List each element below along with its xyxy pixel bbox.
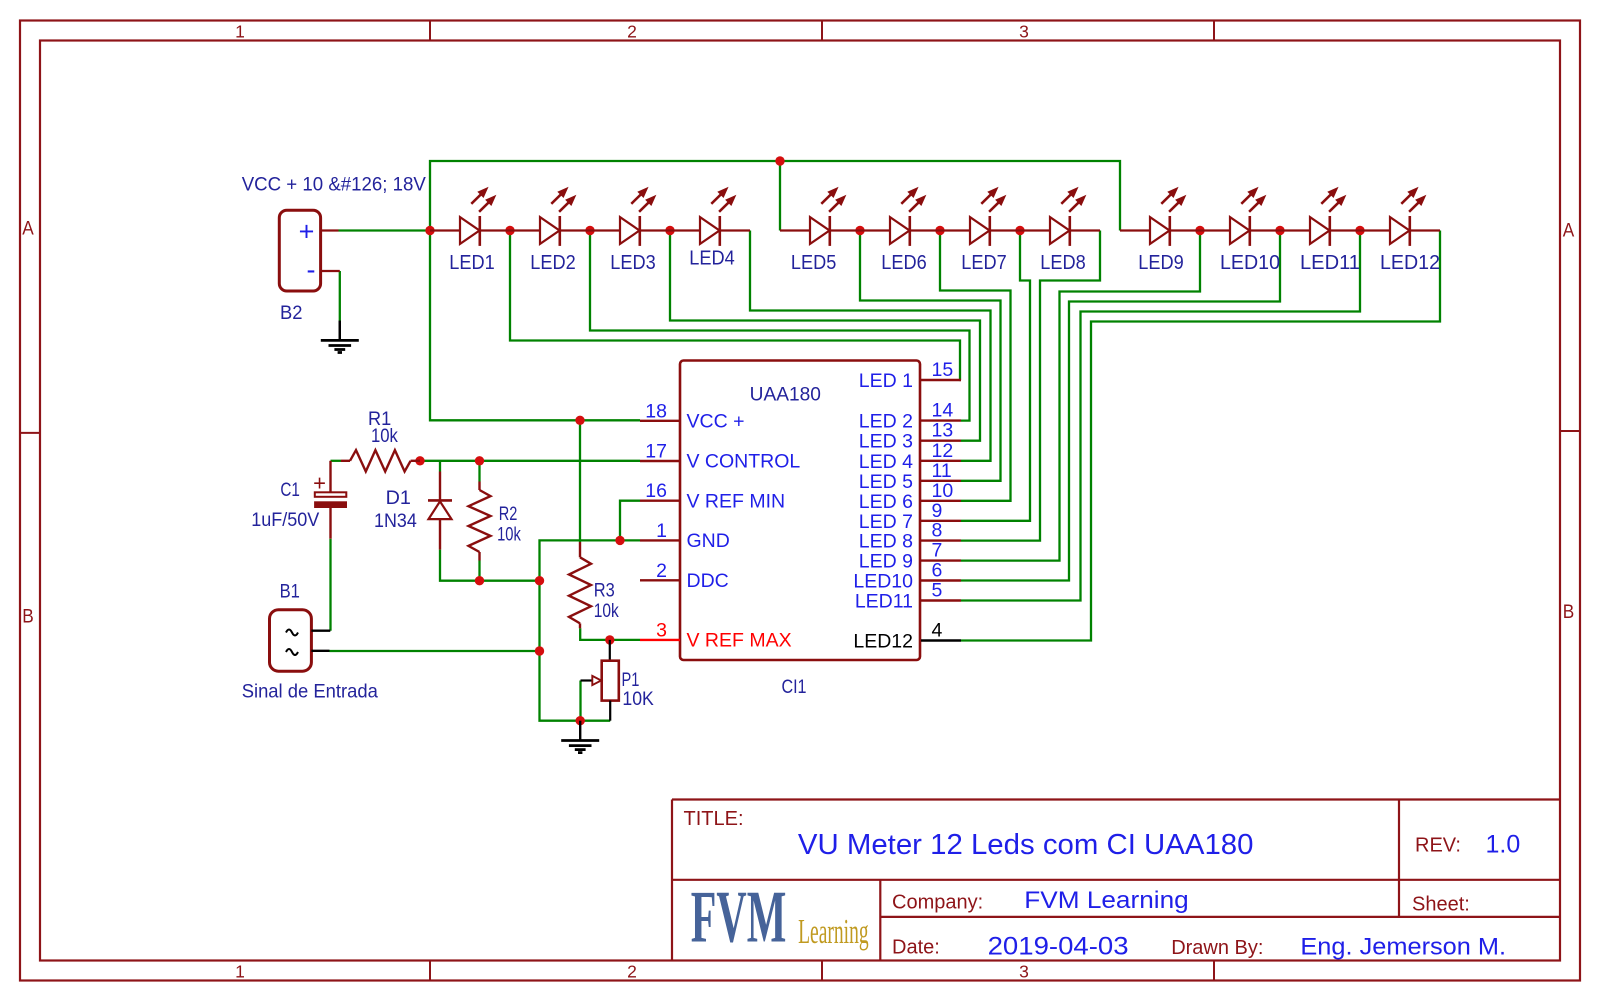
wire LED3 cathode to pin 13: [670, 231, 980, 441]
svg-text:2: 2: [656, 560, 667, 582]
label LED3: [610, 252, 655, 274]
svg-text:Sinal de Entrada: Sinal de Entrada: [242, 681, 378, 703]
LED12: [1360, 188, 1440, 246]
svg-text:3: 3: [656, 619, 667, 641]
svg-text:+: +: [299, 217, 315, 247]
wire VCC vertical + top rail + VCC+ pin18 feed: [430, 161, 1120, 420]
svg-text:16: 16: [645, 480, 667, 502]
svg-text:1.0: 1.0: [1486, 831, 1521, 859]
svg-text:LED8: LED8: [1040, 252, 1085, 274]
IC pin 16 V REF MIN: [640, 480, 785, 512]
LED7: [940, 188, 1020, 246]
wire V REF MIN pin16 to GND line: [620, 501, 640, 541]
wire top rail drop to LED5 anode: [779, 161, 781, 231]
label C1: [251, 479, 319, 531]
svg-text:15: 15: [932, 359, 954, 381]
wire R1 left stub: [331, 460, 342, 462]
svg-text:LED9: LED9: [1138, 252, 1183, 274]
title block REV cell: [1415, 831, 1520, 859]
LED3: [590, 188, 670, 246]
label P1: [622, 669, 654, 710]
svg-text:10k: 10k: [371, 425, 398, 447]
wire LED12 cathode to pin 4: [961, 231, 1440, 641]
IC pin 7 LED 9: [859, 540, 961, 573]
node LED5-LED6: [855, 226, 864, 235]
svg-text:10: 10: [932, 480, 954, 502]
signal source B1: [270, 610, 331, 672]
IC pin 2 DDC: [640, 560, 729, 592]
svg-text:14: 14: [932, 400, 954, 422]
svg-text:10k: 10k: [594, 600, 619, 622]
svg-text:LED7: LED7: [961, 252, 1006, 274]
svg-text:GND: GND: [687, 530, 730, 552]
svg-text:2: 2: [627, 22, 637, 42]
svg-text:D1: D1: [386, 487, 411, 509]
node VCC at LED1 anode: [425, 226, 434, 235]
node bottom ground: [576, 716, 585, 725]
svg-text:LED5: LED5: [791, 252, 836, 274]
IC pin 6 LED10: [853, 560, 961, 593]
label LED4: [689, 248, 734, 270]
node R2 top: [475, 456, 484, 465]
svg-text:Drawn By:: Drawn By:: [1171, 937, 1263, 959]
IC pin 17 V CONTROL: [640, 441, 800, 473]
node P1 top V REF MAX: [605, 635, 614, 644]
label B1: [280, 581, 300, 603]
node VCC to R3: [575, 416, 584, 425]
svg-text:1uF/50V: 1uF/50V: [251, 509, 319, 531]
svg-text:TITLE:: TITLE:: [684, 808, 744, 830]
LED10: [1200, 188, 1280, 246]
svg-text:LED10: LED10: [853, 571, 913, 593]
svg-text:13: 13: [932, 420, 954, 442]
svg-text:REV:: REV:: [1415, 835, 1461, 857]
LED1: [430, 188, 510, 246]
svg-text:VU Meter 12 Leds com CI UAA180: VU Meter 12 Leds com CI UAA180: [798, 829, 1254, 861]
label LED8: [1040, 252, 1085, 274]
node LED10-LED11: [1275, 226, 1284, 235]
svg-text:6: 6: [932, 560, 943, 582]
wire V CONTROL line: [420, 460, 640, 462]
wire LED7 cathode to pin 9: [961, 231, 1030, 521]
label D1: [374, 487, 417, 532]
LED6: [860, 188, 940, 246]
node R1 to V CONTROL: [415, 456, 424, 465]
IC pin 1 GND: [640, 520, 730, 552]
svg-text:C1: C1: [280, 479, 300, 501]
svg-text:A: A: [1563, 221, 1575, 242]
svg-text:B2: B2: [280, 302, 303, 324]
svg-text:LED11: LED11: [1300, 252, 1360, 274]
wire R2 top stub: [478, 461, 480, 482]
svg-text:V REF MAX: V REF MAX: [687, 630, 792, 652]
label LED5: [791, 252, 836, 274]
wire GND pin1 to left vertical down to bottom node: [540, 540, 641, 720]
wire D1 bottom to R2 bottom node: [440, 550, 540, 581]
wire battery minus to ground: [339, 271, 341, 321]
label LED11: [1300, 252, 1360, 274]
title block company row: [892, 887, 1470, 915]
IC pin 12 LED 4: [859, 440, 961, 473]
svg-text:-: -: [307, 254, 316, 284]
svg-text:9: 9: [932, 500, 943, 522]
svg-text:LED 6: LED 6: [859, 491, 913, 513]
svg-text:CI1: CI1: [781, 676, 806, 698]
svg-text:Date:: Date:: [892, 937, 940, 959]
node LED9-LED10: [1195, 226, 1204, 235]
wire VCC rail from battery to LED1 anode: [339, 229, 431, 231]
svg-text:LED11: LED11: [855, 591, 913, 613]
potentiometer P1: [581, 640, 619, 721]
node B1 minus to GND vertical: [535, 646, 544, 655]
label LED9: [1138, 252, 1183, 274]
node LED3-LED4: [665, 226, 674, 235]
svg-text:FVM: FVM: [691, 877, 787, 959]
svg-text:LED12: LED12: [1380, 252, 1440, 274]
wire R3 top from VCC line: [579, 420, 581, 542]
LED5: [780, 188, 860, 246]
svg-text:18: 18: [645, 400, 667, 422]
FVM Learning logo: [691, 877, 869, 959]
title block date row: [892, 933, 1506, 961]
node LED6-LED7: [935, 226, 944, 235]
label R2: [497, 503, 521, 546]
svg-text:2: 2: [627, 962, 637, 982]
IC pin 4 LED12: [853, 620, 961, 653]
svg-text:1N34: 1N34: [374, 510, 417, 532]
node R2 bottom: [475, 576, 484, 585]
wire LED1 cathode to pin 15: [510, 231, 961, 381]
label LED12: [1380, 252, 1440, 274]
ground under B2: [321, 321, 359, 353]
svg-text:LED 2: LED 2: [859, 411, 913, 433]
svg-text:VCC + 10 &#126; 18V: VCC + 10 &#126; 18V: [242, 174, 426, 196]
svg-text:3: 3: [1019, 22, 1029, 42]
wire LED10 cathode to pin 6: [961, 231, 1280, 581]
op-amp/IC U1 UAA180 body: [680, 361, 920, 661]
svg-text:7: 7: [932, 540, 943, 562]
IC pin 3 V REF MAX: [640, 619, 792, 651]
svg-text:Sheet:: Sheet:: [1412, 893, 1470, 915]
svg-text:+: +: [313, 471, 326, 496]
node LED7-LED8: [1015, 226, 1024, 235]
svg-text:LED4: LED4: [689, 248, 734, 270]
svg-text:12: 12: [932, 440, 954, 462]
ground under P1: [561, 721, 599, 753]
svg-text:LED3: LED3: [610, 252, 655, 274]
IC pin 13 LED 3: [859, 420, 961, 453]
svg-text:R3: R3: [594, 580, 615, 602]
IC pin 14 LED 2: [859, 400, 961, 433]
svg-text:LED 9: LED 9: [859, 551, 913, 573]
label LED2: [530, 252, 575, 274]
IC pin 11 LED 5: [859, 460, 961, 493]
svg-text:V CONTROL: V CONTROL: [687, 451, 801, 473]
resistor R1: [341, 450, 420, 471]
node LED11-LED12: [1355, 226, 1364, 235]
svg-text:1: 1: [235, 962, 245, 982]
svg-text:B1: B1: [280, 581, 300, 603]
IC pin 10 LED 6: [859, 480, 961, 513]
svg-text:4: 4: [932, 620, 943, 642]
label VCC net: [242, 174, 426, 196]
label R1: [368, 408, 398, 447]
svg-text:LED 1: LED 1: [859, 370, 913, 392]
svg-text:A: A: [22, 219, 34, 240]
svg-text:Learning: Learning: [798, 912, 869, 951]
svg-text:LED2: LED2: [530, 252, 575, 274]
label LED10: [1220, 252, 1280, 274]
wire P1 wiper to bottom node: [579, 681, 581, 721]
capacitor C1: [313, 461, 346, 539]
wire LED2 cathode to pin 14: [590, 231, 970, 421]
wire R2 bottom stub: [478, 561, 480, 581]
label LED1: [449, 252, 494, 274]
label Sinal de Entrada: [242, 681, 378, 703]
svg-text:Eng. Jemerson M.: Eng. Jemerson M.: [1300, 934, 1506, 961]
label B2: [280, 302, 303, 324]
resistor R3: [569, 542, 591, 628]
wire LED6 cathode to pin 10: [940, 231, 1011, 501]
label LED7: [961, 252, 1006, 274]
svg-text:2019-04-03: 2019-04-03: [988, 933, 1129, 961]
node LED1-LED2: [505, 226, 514, 235]
svg-text:5: 5: [932, 580, 943, 602]
IC pin 15 LED 1: [859, 359, 961, 392]
svg-text:Company:: Company:: [892, 892, 983, 914]
svg-text:LED10: LED10: [1220, 252, 1280, 274]
svg-text:10k: 10k: [497, 524, 521, 546]
svg-text:DDC: DDC: [687, 570, 729, 592]
IC pin 9 LED 7: [859, 500, 961, 533]
svg-text:LED 4: LED 4: [859, 451, 913, 473]
svg-text:LED6: LED6: [881, 252, 926, 274]
LED2: [510, 188, 590, 246]
svg-text:LED 5: LED 5: [859, 471, 913, 493]
svg-text:1: 1: [656, 520, 667, 542]
LED11: [1280, 188, 1360, 246]
label R3: [594, 580, 619, 623]
svg-text:FVM Learning: FVM Learning: [1024, 887, 1188, 914]
wire LED4 cathode to pin 12: [750, 231, 991, 461]
wire R3 bottom to V REF MAX node: [580, 628, 640, 640]
wire C1 bottom to B1 plus: [329, 539, 331, 631]
svg-text:V REF MIN: V REF MIN: [687, 490, 786, 512]
svg-text:LED1: LED1: [449, 252, 494, 274]
label LED6: [881, 252, 926, 274]
svg-text:LED12: LED12: [853, 631, 913, 653]
svg-text:UAA180: UAA180: [750, 383, 821, 405]
wire LED8 cathode to pin 8: [961, 231, 1100, 541]
wire LED9 cathode to pin 7: [961, 231, 1200, 561]
wire LED5 cathode to pin 11: [860, 231, 1001, 481]
svg-text:LED 3: LED 3: [859, 431, 913, 453]
node V REF MIN to GND: [615, 536, 624, 545]
svg-text:11: 11: [932, 460, 952, 482]
wire LED11 cathode to pin 5: [961, 231, 1360, 601]
node D1-R2 to GND vertical: [535, 576, 544, 585]
IC pin 18 VCC +: [640, 400, 744, 432]
svg-text:B: B: [22, 607, 34, 628]
node LED2-LED3: [585, 226, 594, 235]
resistor R2: [469, 482, 491, 561]
svg-text:10K: 10K: [622, 688, 653, 710]
svg-text:8: 8: [932, 520, 943, 542]
svg-text:VCC +: VCC +: [687, 411, 745, 433]
title block lines: [672, 800, 1560, 961]
node top rail to LED5: [775, 156, 784, 165]
LED9: [1120, 188, 1200, 246]
diode D1: [428, 472, 452, 550]
LED8: [1020, 188, 1100, 246]
svg-text:3: 3: [1019, 962, 1029, 982]
IC pin 5 LED11: [855, 580, 961, 613]
svg-text:17: 17: [645, 441, 667, 463]
svg-text:LED 8: LED 8: [859, 531, 913, 553]
title block TITLE row: [684, 808, 1254, 861]
svg-text:1: 1: [235, 22, 245, 42]
wire D1 top stub: [439, 461, 441, 472]
LED4: [670, 188, 750, 246]
wire B1 minus to GND vertical: [330, 650, 540, 652]
svg-text:LED 7: LED 7: [859, 511, 913, 533]
svg-text:B: B: [1563, 602, 1575, 623]
battery B2: [279, 210, 340, 291]
svg-text:R2: R2: [499, 503, 518, 525]
label CI1: [781, 676, 806, 698]
IC pin 8 LED 8: [859, 520, 961, 553]
